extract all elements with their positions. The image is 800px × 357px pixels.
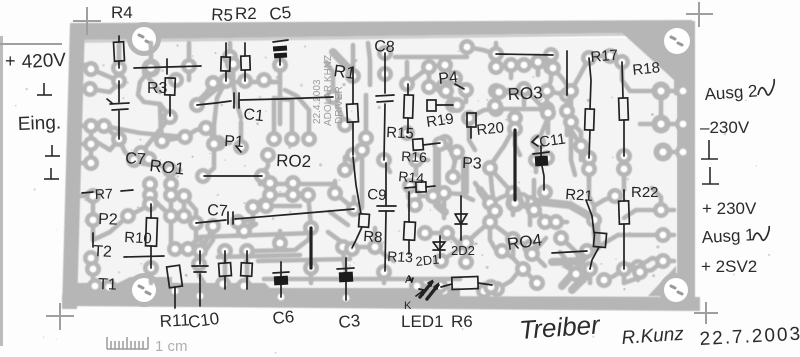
vertical wire right of R03 xyxy=(566,51,568,95)
pad xyxy=(85,212,101,228)
pad xyxy=(487,98,503,114)
bottom margin labels xyxy=(159,307,473,332)
wire xyxy=(496,89,524,91)
pad xyxy=(206,136,222,152)
wire xyxy=(441,243,466,261)
wire xyxy=(251,207,256,220)
R11 lead down xyxy=(174,287,176,308)
svg-text:R10: R10 xyxy=(124,229,152,247)
wire xyxy=(161,125,162,141)
R4 lead bottom xyxy=(118,61,120,68)
wire xyxy=(78,161,91,166)
wire xyxy=(328,232,343,243)
wire xyxy=(490,222,497,252)
wire xyxy=(622,62,661,91)
pad xyxy=(445,97,461,113)
pad xyxy=(438,83,454,99)
pad xyxy=(245,199,261,215)
AC symbol 1 xyxy=(753,226,769,240)
LED1 arrow head 1 xyxy=(428,281,432,286)
R21 lead bottom xyxy=(590,247,599,269)
pad xyxy=(488,101,504,117)
wire xyxy=(663,150,674,155)
C8 plate 2 xyxy=(377,101,393,102)
wire xyxy=(494,91,499,109)
pad xyxy=(421,79,437,95)
wire xyxy=(569,122,574,160)
pad xyxy=(85,188,101,204)
svg-text:ADOLAR KHNZ: ADOLAR KHNZ xyxy=(323,55,334,126)
R5 lead top xyxy=(225,43,227,57)
wire xyxy=(278,65,283,82)
resistor R15 body xyxy=(404,95,414,118)
pad xyxy=(303,260,319,276)
pad xyxy=(553,230,569,246)
wire xyxy=(291,183,296,195)
pad xyxy=(192,243,208,259)
pad xyxy=(191,238,207,254)
pad xyxy=(303,220,319,236)
wire xyxy=(442,279,447,291)
wire cross horizontal xyxy=(124,256,164,257)
wire xyxy=(661,89,674,94)
resistor R3 body xyxy=(165,78,176,95)
wire xyxy=(661,122,674,127)
resistor R4 body xyxy=(114,42,125,61)
wire xyxy=(93,286,98,296)
wire xyxy=(528,203,533,225)
wire xyxy=(78,87,90,92)
wire xyxy=(427,67,432,87)
jumper cross tick xyxy=(166,59,168,74)
wire xyxy=(375,247,394,261)
wire xyxy=(571,130,581,146)
pad xyxy=(436,185,452,201)
pad (large) xyxy=(652,115,671,134)
pad xyxy=(494,243,510,259)
resistor R22 body xyxy=(619,201,630,224)
wire xyxy=(141,117,170,153)
pad xyxy=(459,39,475,55)
pad xyxy=(191,256,207,272)
wire xyxy=(564,274,576,283)
pad xyxy=(522,195,538,211)
R16 lead right xyxy=(423,143,440,145)
resistor R6 body xyxy=(452,277,478,290)
wire xyxy=(333,181,338,193)
P4 tick xyxy=(455,84,464,89)
wire xyxy=(278,82,283,124)
wire xyxy=(290,100,295,139)
wire xyxy=(360,150,365,208)
pad xyxy=(491,84,507,100)
wire xyxy=(417,284,440,289)
C3 plate top xyxy=(337,268,354,269)
pad xyxy=(167,241,183,257)
pad xyxy=(439,225,455,241)
wire xyxy=(622,169,627,180)
long wire top right xyxy=(496,54,553,55)
R7 dash left xyxy=(82,192,93,193)
pad xyxy=(399,76,415,92)
2D2 triangle xyxy=(455,214,467,224)
pad xyxy=(632,264,648,280)
pad xyxy=(437,134,453,150)
pad xyxy=(143,260,159,276)
wire xyxy=(182,196,187,216)
LED1 arrow head 2 xyxy=(434,284,438,289)
wire xyxy=(640,261,663,272)
wire link R01 row xyxy=(204,175,262,177)
pad xyxy=(675,116,691,132)
pad xyxy=(488,59,504,75)
wire xyxy=(274,98,292,100)
pad xyxy=(285,175,301,191)
wire xyxy=(440,144,457,152)
wire xyxy=(144,73,160,92)
pad xyxy=(543,59,559,75)
pad xyxy=(262,187,278,203)
wire xyxy=(589,56,610,58)
svg-text:P2: P2 xyxy=(98,211,118,229)
R10 lead top xyxy=(150,204,152,218)
registration cross top-right xyxy=(686,2,713,27)
wire xyxy=(260,182,335,187)
pad xyxy=(543,47,559,63)
ground symbol right 2 xyxy=(702,167,719,184)
wire xyxy=(187,66,192,80)
R2 lead top xyxy=(244,43,246,56)
wire xyxy=(488,203,493,222)
pad xyxy=(548,214,564,230)
capacitor C5 body xyxy=(273,46,287,59)
pad xyxy=(417,225,433,241)
wire xyxy=(490,193,513,203)
pad xyxy=(432,278,448,294)
capacitor C10 wire top xyxy=(199,251,201,264)
wire xyxy=(437,148,445,212)
wire xyxy=(128,204,150,216)
wire xyxy=(536,142,538,160)
wire xyxy=(239,122,244,147)
R15 lead bottom xyxy=(407,118,409,133)
R6 lead left xyxy=(441,284,452,287)
pad xyxy=(433,253,449,269)
svg-text:RO3: RO3 xyxy=(507,83,543,104)
resistor R19 body xyxy=(427,100,436,111)
wire xyxy=(160,104,161,138)
wire xyxy=(308,195,311,225)
wire xyxy=(117,43,122,68)
pad xyxy=(529,275,545,291)
wire xyxy=(588,269,593,283)
pad xyxy=(579,243,595,259)
wire xyxy=(200,233,312,237)
pad xyxy=(176,188,192,204)
pad xyxy=(168,72,184,88)
left copper strip xyxy=(62,23,85,309)
wire xyxy=(464,90,469,102)
resistor R14 lead left xyxy=(405,187,416,188)
C9 plate 1 xyxy=(377,205,396,207)
R13 body xyxy=(404,222,416,241)
R17 lead top xyxy=(589,58,591,109)
pad (large) xyxy=(142,59,161,78)
C6 body xyxy=(274,276,288,286)
R8 lead bottom xyxy=(352,227,362,248)
pad xyxy=(236,278,252,294)
wire xyxy=(610,56,622,62)
wire xyxy=(343,247,346,272)
svg-text:+ 2SV2: + 2SV2 xyxy=(701,257,757,276)
pad xyxy=(230,214,246,230)
resistor R8 body xyxy=(359,214,370,228)
wire xyxy=(534,160,539,172)
pad xyxy=(272,235,288,251)
resistor R17 body xyxy=(585,109,595,130)
R19 lead right xyxy=(436,104,453,106)
svg-text:–230V: –230V xyxy=(700,118,750,137)
wire xyxy=(513,118,518,129)
heavy wire link center xyxy=(309,228,312,268)
wire xyxy=(587,158,592,169)
wire xyxy=(545,91,550,109)
wire xyxy=(659,91,664,124)
R15 lead top xyxy=(407,84,409,95)
wire xyxy=(495,94,499,106)
pad xyxy=(163,208,179,224)
wire xyxy=(413,196,418,205)
pad xyxy=(488,46,504,62)
wire xyxy=(91,196,96,220)
wire xyxy=(95,139,119,150)
resistor R10 body xyxy=(146,218,158,246)
pad xyxy=(325,89,341,105)
pad (large) xyxy=(654,143,673,162)
capacitor C7 wire top xyxy=(118,81,120,102)
copper traces xyxy=(78,43,674,296)
pad xyxy=(258,198,274,214)
wire xyxy=(80,194,93,199)
right copper strip xyxy=(677,21,695,309)
pad xyxy=(616,148,632,164)
pad xyxy=(354,142,370,158)
wire xyxy=(553,68,571,91)
wire xyxy=(382,272,387,283)
wire xyxy=(513,258,523,269)
scan left edge shadow xyxy=(0,36,3,346)
wire xyxy=(545,220,556,225)
pad xyxy=(516,57,532,73)
pad xyxy=(476,283,492,299)
pad xyxy=(407,197,423,213)
pad xyxy=(432,136,448,152)
pad xyxy=(435,79,451,95)
svg-text:22.4.2003: 22.4.2003 xyxy=(312,79,323,124)
wire xyxy=(538,62,553,68)
svg-text:T2: T2 xyxy=(93,243,113,261)
pad xyxy=(582,261,598,277)
pad xyxy=(254,168,270,184)
C1 plate 1 xyxy=(233,93,235,108)
wire xyxy=(326,62,333,97)
pad xyxy=(489,281,505,297)
pad xyxy=(522,239,538,255)
pad xyxy=(83,61,99,77)
wire xyxy=(90,83,119,92)
wire xyxy=(522,89,527,105)
svg-text:R17: R17 xyxy=(590,47,619,66)
resistor R12 body xyxy=(219,263,232,277)
C7 wire bottom xyxy=(118,111,120,139)
R14 body xyxy=(416,182,426,192)
R1 lead bottom xyxy=(352,122,354,155)
wire xyxy=(442,193,447,218)
pad xyxy=(568,266,584,282)
wire xyxy=(330,212,348,225)
pad xyxy=(83,250,99,266)
LED1 symbol stroke 2 xyxy=(427,285,438,299)
wire xyxy=(475,183,495,211)
wire xyxy=(117,70,122,83)
wire xyxy=(262,155,268,176)
C11 angle mark xyxy=(532,136,538,146)
pad xyxy=(573,138,589,154)
resistor R16 body xyxy=(413,139,424,151)
svg-text:420V: 420V xyxy=(21,50,67,73)
svg-text:C11: C11 xyxy=(538,130,567,151)
pad xyxy=(83,136,99,152)
pad xyxy=(205,218,221,234)
pad xyxy=(142,176,158,192)
pad xyxy=(482,195,498,211)
wire xyxy=(565,111,570,135)
pad xyxy=(421,59,437,75)
wire xyxy=(150,195,171,216)
pad (large) xyxy=(652,82,671,101)
pad xyxy=(505,185,521,201)
wire xyxy=(532,180,537,210)
R6 lead right xyxy=(478,283,492,285)
signature Treiber R.Kunz 22.7.2003 xyxy=(518,309,800,350)
top-right chamfer pour xyxy=(620,21,695,95)
pad xyxy=(327,185,343,201)
wire xyxy=(547,67,551,91)
pad xyxy=(141,151,157,167)
svg-text:Ausg 1: Ausg 1 xyxy=(701,225,755,247)
pad xyxy=(437,57,453,73)
pad xyxy=(142,187,158,203)
resistor R20 body xyxy=(467,113,476,127)
pad xyxy=(539,83,555,99)
wire xyxy=(480,190,495,211)
wire xyxy=(469,109,496,118)
pad xyxy=(181,58,197,74)
wire xyxy=(536,158,547,160)
R13 lead bottom xyxy=(408,240,410,254)
pad xyxy=(192,288,208,304)
top copper strip xyxy=(72,20,692,40)
pad xyxy=(539,150,555,166)
wire xyxy=(509,65,514,78)
svg-text:R4: R4 xyxy=(111,3,133,22)
wire xyxy=(78,124,91,129)
wire xyxy=(589,169,594,206)
pad xyxy=(653,202,669,218)
wire xyxy=(618,233,663,238)
pad xyxy=(630,259,646,275)
C6 plate top xyxy=(273,272,289,273)
pad xyxy=(563,83,579,99)
wire xyxy=(576,252,590,269)
AC symbol 2 xyxy=(758,79,774,95)
wire xyxy=(652,188,661,210)
wire xyxy=(571,58,589,91)
wire xyxy=(78,142,91,147)
wire R04 to R21 xyxy=(552,251,587,253)
wire xyxy=(352,197,357,209)
wire xyxy=(443,57,448,65)
pad xyxy=(507,110,523,126)
R18 lead top xyxy=(622,62,623,98)
svg-text:T1: T1 xyxy=(98,276,117,294)
wire xyxy=(490,128,514,166)
K arrow head xyxy=(419,289,424,295)
pad xyxy=(461,110,477,126)
pad xyxy=(559,87,575,103)
wire xyxy=(343,157,348,170)
pad xyxy=(516,81,532,97)
wire xyxy=(565,266,577,273)
wire xyxy=(499,92,548,113)
pad xyxy=(163,176,179,192)
mounting hole top-left xyxy=(127,22,161,56)
C8 plate 1 xyxy=(376,95,394,96)
svg-text:R.Kunz: R.Kunz xyxy=(621,324,685,349)
R7 dash right xyxy=(121,190,133,191)
wire xyxy=(231,64,236,82)
wire xyxy=(427,57,432,67)
C8 wire bottom xyxy=(384,104,385,160)
pad xyxy=(111,73,127,89)
resistor R18 body xyxy=(619,98,629,120)
pad xyxy=(614,54,630,70)
pad xyxy=(338,290,354,306)
wire xyxy=(245,251,250,283)
wire xyxy=(447,233,461,248)
pad xyxy=(447,70,463,86)
wire xyxy=(82,284,95,289)
wire xyxy=(490,168,495,209)
pad xyxy=(507,121,523,137)
R4 lead top xyxy=(118,36,120,42)
pad xyxy=(233,139,249,155)
C7 tick xyxy=(107,99,112,103)
wire xyxy=(562,268,578,286)
R20 lead down xyxy=(470,127,472,138)
LED1 anode tick xyxy=(409,276,412,281)
wire xyxy=(264,80,280,82)
pad xyxy=(358,130,374,146)
resistor R21 body xyxy=(593,233,606,248)
svg-text:C1: C1 xyxy=(243,106,265,125)
wire xyxy=(149,159,180,170)
svg-text:R6: R6 xyxy=(451,312,473,331)
pad xyxy=(399,125,415,141)
wire xyxy=(169,216,174,246)
K arrow xyxy=(416,290,424,296)
svg-text:C7: C7 xyxy=(207,202,228,220)
